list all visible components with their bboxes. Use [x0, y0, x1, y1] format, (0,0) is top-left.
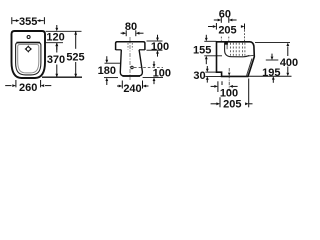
floor extension line right	[248, 75, 292, 77]
plan body outline	[12, 31, 46, 78]
drain symbol	[25, 45, 33, 53]
svg-text:30: 30	[193, 70, 205, 82]
dashed line from drain to right	[134, 67, 163, 69]
drain arrow on floor	[228, 73, 231, 76]
drain circle middle view	[131, 66, 133, 68]
dim 100 upper right of middle	[147, 40, 163, 42]
svg-text:240: 240	[123, 83, 141, 95]
dim 30 (left lower)	[205, 71, 216, 73]
svg-text:260: 260	[19, 82, 37, 94]
extension dashes above rim	[221, 30, 244, 41]
svg-text:195: 195	[262, 67, 280, 79]
svg-text:120: 120	[46, 32, 64, 44]
svg-text:100: 100	[151, 41, 169, 53]
plan bowl rim top thick edge	[17, 42, 41, 44]
dim 260 (bottom of plan)	[5, 80, 51, 87]
svg-text:155: 155	[193, 44, 211, 56]
dim 400 (right)	[286, 43, 289, 77]
centerline	[129, 37, 131, 80]
svg-text:80: 80	[125, 21, 137, 33]
dim 205 (top)	[208, 23, 245, 30]
dim 240 (bottom middle)	[117, 81, 149, 89]
dim 180 (left of middle)	[105, 62, 121, 64]
extension line C (bottom, y77.2)	[42, 76, 82, 78]
dim 205 (bottom of side)	[219, 97, 221, 107]
dim 100 lower right of middle	[143, 77, 163, 79]
rim underside front	[244, 55, 254, 56]
dim 120 arrows	[55, 25, 58, 50]
svg-text:355: 355	[19, 16, 37, 28]
dim 355 (top of plan)	[12, 17, 45, 24]
svg-text:525: 525	[66, 52, 84, 64]
dim 195 (right inner)	[266, 59, 279, 61]
faucet hole	[27, 36, 30, 39]
hidden dashes in bowl area	[231, 43, 245, 56]
dim 370 line and arrows	[55, 43, 58, 77]
tap hole section	[225, 42, 228, 45]
dim 80 (top middle)	[121, 30, 144, 36]
svg-text:370: 370	[47, 54, 65, 66]
dim 155 (left)	[204, 40, 216, 42]
svg-text:60: 60	[219, 8, 231, 20]
svg-text:205: 205	[223, 99, 241, 111]
dim 60 (top)	[214, 17, 237, 23]
dim 100 (bottom of side)	[217, 81, 219, 92]
top block	[116, 42, 145, 50]
top extension line for 400	[255, 42, 290, 44]
pedestal column	[120, 50, 142, 76]
extension line B (rim top, y42.7)	[46, 42, 63, 44]
drain centerline dash-dot	[228, 68, 230, 91]
svg-text:180: 180	[98, 65, 116, 77]
bowl interior section	[225, 42, 250, 57]
inner slant line on side	[246, 59, 252, 77]
fixing hole hidden lines	[127, 43, 129, 50]
svg-text:205: 205	[218, 24, 236, 36]
plan bowl rim inner	[18, 45, 39, 73]
dim 525 line and arrows	[74, 31, 77, 77]
plan bowl rim outer	[16, 42, 41, 75]
svg-text:100: 100	[153, 67, 171, 79]
extension line A (top, y31.3)	[46, 30, 82, 32]
svg-text:400: 400	[280, 57, 298, 69]
side body outline	[217, 42, 255, 77]
